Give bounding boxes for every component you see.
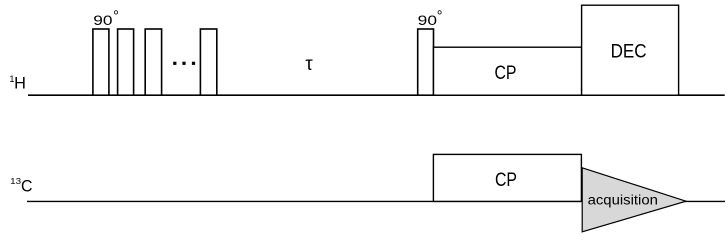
svg-text:acquisition: acquisition — [588, 193, 658, 208]
svg-text:CP: CP — [495, 169, 517, 191]
svg-text:90: 90 — [418, 13, 437, 29]
svg-text:90: 90 — [93, 13, 112, 29]
svg-text:H: H — [14, 75, 26, 93]
svg-text:CP: CP — [495, 62, 517, 84]
svg-text:13: 13 — [10, 176, 21, 186]
svg-text:C: C — [21, 177, 33, 196]
svg-text:°: ° — [113, 8, 119, 24]
svg-text:DEC: DEC — [611, 40, 647, 62]
svg-text:τ: τ — [305, 53, 313, 75]
svg-text:°: ° — [437, 8, 443, 24]
